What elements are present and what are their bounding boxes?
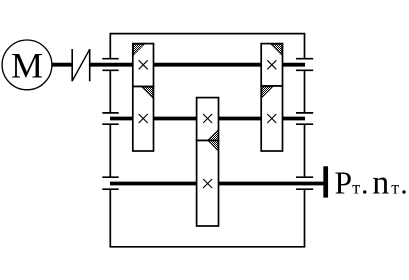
housing — [110, 34, 306, 247]
bearing: shaft II left wall — [102, 113, 118, 124]
hatch wedge: middle block left-pointing at divider — [208, 130, 218, 151]
shaft I (input) — [90, 63, 305, 67]
hatch wedge: left block lower gear top-right — [142, 87, 153, 98]
shaft II (intermediate) — [110, 117, 305, 121]
shaft III (output) — [110, 182, 324, 186]
gear fixed mark x: middle block on shaft III — [203, 179, 212, 188]
gear fixed mark x: left block on shaft I — [139, 60, 148, 69]
hatch wedge: right block upper gear top-right — [271, 44, 282, 55]
svg-text:Pт.nт.: Pт.nт. — [335, 165, 408, 202]
bearing: shaft III left wall — [102, 177, 118, 189]
output end bar — [323, 166, 328, 197]
bearing: shaft I right wall — [296, 59, 313, 71]
svg-text:M: M — [11, 46, 43, 86]
bearing: shaft II right wall — [296, 113, 313, 124]
gear fixed mark x: right block on shaft II — [267, 114, 276, 123]
gear block right (on shaft I-II) — [261, 44, 282, 151]
gear fixed mark x: middle block on shaft II — [203, 114, 212, 123]
hatch wedge: left block upper gear top-left — [134, 44, 145, 55]
bearing: shaft I left wall — [102, 59, 118, 71]
gear block left (sliding gears z1 z2 on shaft I-II) — [133, 44, 154, 151]
hatch wedge: right block lower gear top-left — [262, 87, 273, 98]
gear block middle (on shaft II-III) — [197, 98, 219, 226]
coupling (slip) — [72, 49, 90, 81]
motor M — [2, 40, 52, 90]
wire: shaft I stub motor to coupling — [52, 63, 73, 67]
bearing: shaft III right wall — [296, 177, 313, 189]
gear fixed mark x: left block on shaft II — [139, 114, 148, 123]
gear fixed mark x: right block on shaft I — [267, 60, 276, 69]
